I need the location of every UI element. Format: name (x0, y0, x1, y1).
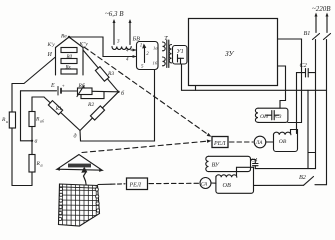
resistor Rаб (29, 112, 35, 127)
battery E wire (21, 90, 57, 92)
dashed wire РЕЛ1 to ЛА (230, 141, 254, 143)
right rail down to В2 (315, 90, 327, 184)
svg-text:R1: R1 (55, 106, 62, 112)
ЗУ bottom stub (195, 86, 197, 91)
svg-text:ОВ: ОВ (223, 182, 231, 189)
node б (117, 91, 119, 93)
svg-text:д: д (74, 133, 77, 140)
svg-text:В2: В2 (299, 174, 306, 181)
svg-text:Rб: Rб (78, 82, 85, 89)
БВ blade arrow (144, 48, 146, 63)
reflector triangle (57, 155, 102, 171)
reflector arrow left (56, 168, 61, 171)
discharge arrow zigzag (84, 169, 87, 181)
winding ОВ upper box (274, 130, 298, 152)
6.3V supply arrows (113, 21, 115, 45)
svg-text:И: И (47, 52, 53, 58)
rectifier ВУ box (209, 156, 251, 171)
svg-text:Rв: Rв (60, 34, 67, 40)
bridge parallel block left rail (55, 48, 57, 76)
transformer T core (166, 40, 168, 68)
apex node wires (56, 37, 84, 48)
arrow 4 lower into БВ (133, 55, 137, 58)
svg-text:R3: R3 (107, 71, 114, 77)
svg-text:БВ: БВ (132, 36, 141, 43)
svg-text:н: н (6, 119, 8, 124)
svg-text:1а: 1а (153, 46, 158, 51)
svg-text:Т: Т (164, 35, 168, 42)
battery E plates (57, 87, 59, 96)
svg-text:4: 4 (126, 58, 129, 63)
svg-text:Rк: Rк (65, 66, 72, 71)
heater winding (112, 47, 131, 50)
wire stub from mesh (98, 183, 111, 185)
tube У1 electrodes (177, 55, 179, 63)
wire bottom of left loop (12, 185, 32, 187)
svg-text:С4: С4 (251, 158, 258, 164)
wire from battery row down to node a (21, 91, 33, 141)
svg-text:РЕЛ: РЕЛ (213, 141, 226, 147)
mesh net outline (59, 184, 100, 226)
switch box БВ (137, 42, 159, 70)
tube У1 box (173, 46, 188, 65)
svg-text:ОВ: ОВ (279, 139, 287, 145)
wire В2 to ОВ box (254, 184, 304, 186)
svg-text:3: 3 (117, 40, 120, 45)
capacitor C3 inside ОН (266, 114, 271, 116)
wire corner to R1 (32, 96, 44, 98)
wire rheostat to node б (92, 90, 119, 93)
svg-text:В1: В1 (304, 30, 311, 37)
wire vertical chain x=32 (31, 97, 33, 186)
bridge resistor Rк bottom (61, 69, 77, 74)
dashed РЕЛ2 to СА (149, 182, 199, 184)
bridge resistor Rв top (61, 48, 77, 53)
svg-text:К'у: К'у (47, 42, 56, 48)
svg-text:б: б (41, 163, 44, 168)
wire battery to rheostat (62, 90, 78, 92)
dashed beam upper (from bridge to РЕЛ1) (84, 47, 210, 136)
svg-text:а: а (35, 139, 38, 145)
resistor R3 diagonal (83, 50, 119, 92)
transformer T primary windings (163, 42, 166, 51)
rheostat Rб horizontal (78, 88, 93, 95)
winding ОВ lower box (216, 167, 254, 193)
wire left vertical rail (11, 84, 13, 186)
switch В2 blade (304, 177, 314, 186)
resistor R1 diagonal (44, 97, 80, 131)
svg-text:аб: аб (40, 119, 45, 124)
relay РЕЛ1 box (212, 137, 228, 148)
relay РЕЛ2 box (127, 178, 148, 190)
capacitor C4 (251, 160, 256, 164)
bridge resistor Rд middle (61, 59, 77, 64)
bridge rails 308-315 (308, 152, 316, 154)
svg-text:ЗУ: ЗУ (225, 49, 235, 58)
ЗУ output wire lower to ОН (278, 66, 286, 108)
svg-text:1: 1 (140, 44, 143, 49)
rheostat wiper arrow (77, 86, 84, 97)
arrow 4 upper into БВ (131, 49, 136, 51)
svg-text:С3: С3 (275, 114, 282, 120)
resistor R2 diagonal (80, 92, 119, 131)
mesh eyelets right (95, 188, 98, 191)
winding ОН box (258, 108, 288, 122)
node д stub down and wire right to transformer leg (80, 67, 155, 141)
mesh eyelets left (59, 187, 100, 220)
svg-text:СА: СА (201, 183, 208, 188)
counter СА circle (200, 178, 211, 189)
220V supply arrows (315, 14, 317, 33)
wire C4 bottom to right rails (255, 168, 315, 170)
heater bar in reflector (68, 164, 91, 168)
svg-text:1б: 1б (153, 61, 158, 66)
electronic unit ЗУ box (189, 19, 278, 86)
svg-text:~220В: ~220В (312, 5, 331, 13)
svg-text:+: + (62, 85, 65, 90)
svg-text:РЕЛ: РЕЛ (129, 183, 142, 189)
svg-text:ВУ: ВУ (212, 162, 220, 169)
dashed mesh to РЕЛ2 (111, 183, 125, 185)
lamp ЛА circle (254, 136, 266, 148)
rail from В1 right pole down (326, 40, 328, 91)
wire apex to heater block (69, 37, 137, 57)
wire left diagonal to node И (12, 58, 55, 84)
switch В1 blades (313, 34, 320, 40)
resistor Rн (9, 112, 15, 128)
svg-text:ОН: ОН (260, 114, 269, 120)
rheostat tap loop (81, 92, 104, 99)
mesh grid (57, 182, 101, 228)
rail from wire down to C4 line (307, 90, 309, 168)
svg-text:К"у: К"у (79, 42, 89, 48)
svg-text:ЛА: ЛА (255, 140, 264, 146)
capacitor C2 (297, 73, 305, 134)
svg-text:Е: Е (50, 83, 55, 89)
bridge parallel block right rail (82, 48, 84, 76)
svg-text:~6,3 В: ~6,3 В (105, 10, 124, 18)
mesh top roll line (60, 187, 98, 188)
svg-text:R2: R2 (87, 102, 94, 108)
reflector arrow right (99, 169, 104, 172)
dashed beam lower (from reflector to РЕЛ1) (82, 141, 210, 153)
node a (31, 140, 33, 142)
ЗУ output wire upper to C2 rail (278, 39, 302, 123)
rail from В1 left pole down through C2 to C4 line (315, 40, 317, 169)
resistor Rб vertical (29, 155, 35, 173)
svg-text:У1: У1 (177, 48, 184, 55)
wire under ЗУ from tube to right rail (182, 65, 327, 91)
svg-text:С2: С2 (300, 62, 307, 69)
transformer T secondary winding (169, 45, 171, 63)
svg-text:Rд: Rд (66, 55, 73, 60)
svg-text:б: б (121, 90, 125, 97)
